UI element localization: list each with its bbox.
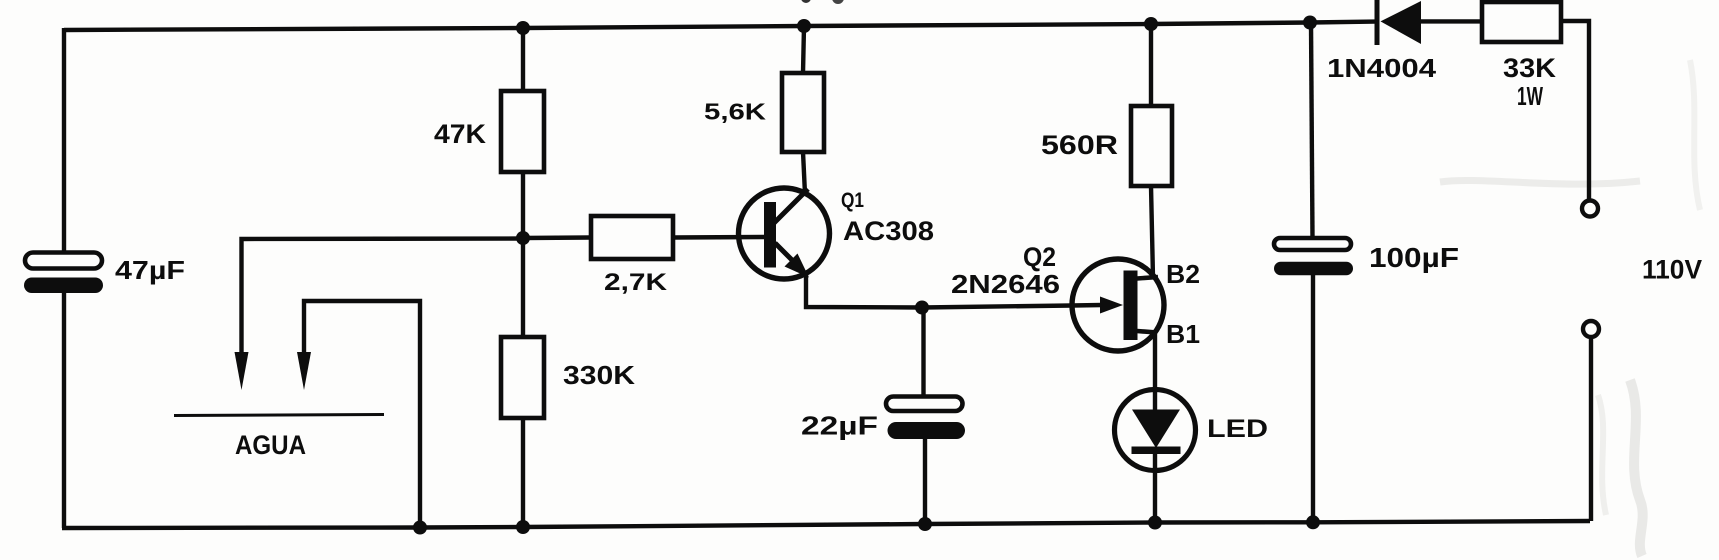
probe2 arrowhead <box>297 352 311 390</box>
capacitor 22uF plates <box>921 308 925 397</box>
svg-text:330K: 330K <box>563 360 635 390</box>
Q1 emitter arrowhead <box>785 254 810 278</box>
svg-text:100µF: 100µF <box>1369 242 1459 273</box>
junction top rail at 100uF <box>1303 16 1317 30</box>
junction bottom rail at 330K <box>516 520 530 534</box>
node A junction at 47K/330K <box>516 231 530 245</box>
probe1 arrowhead <box>235 352 249 390</box>
page artifact top center <box>801 0 811 3</box>
svg-text:33K: 33K <box>1503 53 1557 83</box>
diode D1 triangle <box>1381 1 1422 44</box>
wire probe2 to ground rail <box>304 301 420 527</box>
resistor 330K body <box>521 238 525 337</box>
Q2 B2 lead <box>1137 277 1158 279</box>
capacitor C1 47uF plates <box>25 253 102 269</box>
junction bottom rail at 22uF <box>918 517 932 531</box>
svg-text:LED: LED <box>1207 415 1268 443</box>
wire probe1 from node to sensor <box>242 239 524 356</box>
wire B1 down to LED <box>1153 331 1157 410</box>
Q1 emitter lead <box>775 243 794 262</box>
Q2 emitter lead with arrowhead <box>1072 303 1102 308</box>
svg-text:AGUA: AGUA <box>235 430 306 460</box>
LED cathode bar <box>1132 447 1181 455</box>
svg-text:B1: B1 <box>1166 319 1200 349</box>
diode D1 1N4004 cathode bar <box>1375 0 1380 45</box>
svg-text:110V: 110V <box>1642 255 1702 285</box>
Q1 base bar <box>764 202 776 268</box>
svg-text:1W: 1W <box>1517 81 1543 111</box>
junction bottom rail at 100uF <box>1306 515 1320 529</box>
svg-text:47K: 47K <box>434 119 486 149</box>
transistor Q1 body <box>739 188 830 279</box>
capacitor 100uF plates <box>1311 23 1313 239</box>
wire top rail left segment <box>64 22 1375 30</box>
Q1 collector lead <box>774 189 808 223</box>
svg-text:2,7K: 2,7K <box>604 269 667 296</box>
junction top rail at 47K <box>516 21 530 35</box>
resistor 5,6K body <box>803 26 804 73</box>
terminal upper 110V <box>1582 201 1598 217</box>
svg-text:Q1: Q1 <box>841 189 864 212</box>
terminal lower 110V <box>1583 321 1599 337</box>
svg-text:AC308: AC308 <box>843 216 934 246</box>
Q2 B1 lead <box>1137 331 1157 333</box>
svg-text:1N4004: 1N4004 <box>1327 53 1437 83</box>
junction top rail at 560R <box>1144 17 1158 31</box>
svg-text:47µF: 47µF <box>115 255 185 285</box>
wire right rail below lower terminal <box>1589 337 1593 521</box>
LED D2 body <box>1115 390 1196 471</box>
junction bottom rail at probe2 <box>413 521 427 535</box>
transistor Q2 body (UJT) <box>1072 259 1164 351</box>
resistor 33K body <box>1482 2 1561 42</box>
wire left rail <box>62 28 66 253</box>
wire top rail right of 33K to corner <box>1560 21 1589 200</box>
wire LED to bottom rail <box>1153 454 1157 523</box>
resistor 560R body <box>1149 24 1153 106</box>
svg-text:5,6K: 5,6K <box>704 99 766 125</box>
Q2 base bar <box>1124 271 1138 341</box>
svg-text:Q2: Q2 <box>1023 242 1056 272</box>
svg-text:2N2646: 2N2646 <box>951 269 1060 299</box>
water surface line <box>174 415 384 416</box>
svg-text:B2: B2 <box>1166 259 1200 289</box>
wire bottom rail <box>62 521 1590 528</box>
LED triangle <box>1132 410 1180 449</box>
svg-text:22µF: 22µF <box>801 411 878 441</box>
wire top rail between diode and 33K <box>1420 19 1482 23</box>
wire Q1 emitter down and right to Q2 <box>806 273 1072 308</box>
resistor 2,7K body <box>523 235 591 240</box>
junction bottom rail at LED <box>1148 516 1162 530</box>
svg-text:560R: 560R <box>1041 130 1118 160</box>
junction top rail at 5,6K <box>797 19 811 33</box>
node emitter junction <box>915 301 929 315</box>
resistor 47K body <box>521 28 525 91</box>
